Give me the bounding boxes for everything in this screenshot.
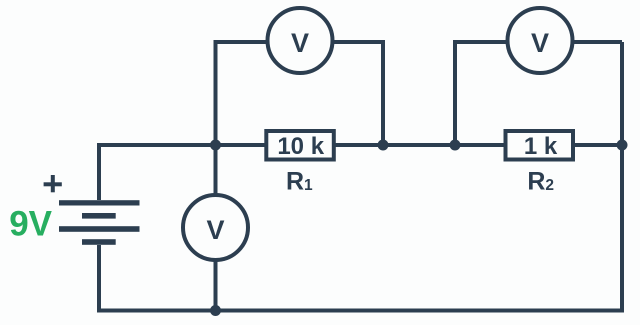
wire: battery bottom lead (97, 245, 101, 311)
node: junction right of R1 (378, 140, 389, 151)
resistor R2 box with value 1 k (506, 131, 574, 160)
svg-text:1 k: 1 k (524, 133, 558, 160)
resistor R1 box with value 10 k (266, 131, 334, 160)
wire: bottom return rail (97, 309, 624, 313)
voltmeter U3 (across battery) (183, 195, 248, 260)
svg-text:R1: R1 (286, 167, 313, 195)
node: junction on bottom rail below middle voltmeter (210, 305, 221, 316)
node: junction right of R2 at right rail (617, 140, 628, 151)
svg-text:R2: R2 (527, 167, 554, 195)
wire: middle voltmeter branch (214, 145, 218, 311)
svg-text:V: V (531, 28, 549, 58)
voltmeter U1 (across R1) (268, 8, 333, 73)
voltmeter U2 (across R2) (508, 8, 573, 73)
battery V1: short negative plate (82, 213, 116, 219)
svg-text:V: V (206, 215, 224, 245)
wire: top-right voltmeter loop (455, 42, 622, 145)
wire: battery top lead and main horizontal rail (99, 145, 622, 200)
label: plus sign of battery (44, 175, 62, 192)
battery V1: long positive plate (lower) (59, 226, 140, 232)
svg-text:9V: 9V (9, 205, 52, 244)
wire: top-left voltmeter loop (216, 42, 384, 145)
svg-text:10 k: 10 k (277, 133, 324, 160)
battery V1: short negative plate (bottom) (82, 239, 116, 245)
battery V1: long positive plate (top) (59, 200, 140, 205)
node: junction left of top-right voltmeter tap (450, 140, 461, 151)
wire: right vertical from top-right voltmeter to bottom rail (620, 42, 624, 313)
node: junction at top-left voltmeter tap (210, 140, 221, 151)
svg-text:V: V (291, 28, 309, 58)
